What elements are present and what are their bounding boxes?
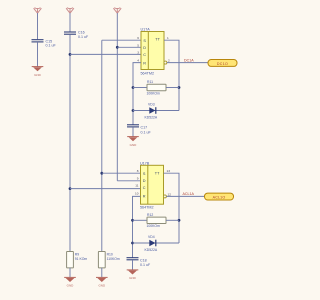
wire (132, 260, 134, 270)
wire (70, 53, 141, 55)
svg-text:0.1 uF: 0.1 uF (46, 43, 57, 47)
resistor R11 (147, 80, 167, 95)
svg-text:R11: R11 (147, 80, 153, 84)
resistor R10 (98, 252, 120, 268)
power port P2 (66, 8, 74, 14)
wire (133, 242, 180, 244)
svg-text:C: C (143, 53, 146, 57)
svg-text:564TM2: 564TM2 (140, 205, 154, 209)
svg-text:0.1 uF: 0.1 uF (140, 263, 151, 267)
svg-text:KD522A: KD522A (145, 116, 158, 120)
svg-text:3: 3 (137, 50, 139, 54)
port ACL1O (205, 193, 234, 200)
resistor R9 (67, 252, 88, 268)
svg-text:5: 5 (137, 43, 139, 47)
svg-text:13: 13 (167, 169, 171, 173)
junction (69, 187, 72, 190)
svg-text:R: R (143, 194, 146, 198)
wire (102, 39, 141, 41)
wire (101, 40, 103, 251)
svg-text:GND: GND (98, 284, 106, 288)
svg-text:C16: C16 (78, 31, 85, 35)
svg-text:U17A: U17A (141, 27, 151, 31)
wire (164, 40, 179, 110)
ground (64, 277, 76, 287)
junction (132, 109, 135, 112)
wire (70, 188, 141, 190)
svg-text:GND: GND (130, 143, 138, 147)
junction (178, 219, 181, 222)
diode VD4 (145, 235, 158, 252)
svg-text:GND: GND (67, 284, 75, 288)
svg-text:C: C (143, 186, 146, 190)
capacitor C18 (127, 258, 151, 267)
svg-text:GND: GND (129, 276, 137, 280)
svg-text:8: 8 (137, 169, 139, 173)
ground (127, 137, 139, 147)
svg-text:VD4: VD4 (148, 235, 155, 239)
capacitor C17 (127, 125, 151, 135)
svg-text:0.1 uF: 0.1 uF (78, 35, 89, 39)
power port P3 (113, 8, 121, 14)
wire (133, 110, 179, 112)
wire (37, 43, 39, 67)
svg-text:100KOm: 100KOm (147, 91, 161, 95)
svg-text:10: 10 (135, 192, 139, 196)
svg-text:KD522A: KD522A (145, 248, 158, 252)
svg-text:C18: C18 (140, 258, 147, 262)
svg-text:1: 1 (167, 36, 169, 40)
svg-text:R9: R9 (75, 253, 79, 257)
svg-text:12: 12 (168, 192, 172, 196)
flip-flop U17A (141, 27, 167, 75)
svg-text:11: 11 (135, 183, 138, 187)
svg-text:0.1 uF: 0.1 uF (141, 130, 152, 134)
svg-text:TT: TT (155, 38, 160, 42)
wire (133, 196, 141, 257)
wire (37, 13, 39, 39)
capacitor C16 (64, 31, 89, 39)
svg-text:DC1O: DC1O (217, 62, 228, 66)
port DC1O (208, 60, 237, 67)
junction (131, 219, 134, 222)
wire (166, 195, 204, 197)
svg-text:U17B: U17B (140, 161, 150, 165)
wire (117, 180, 140, 182)
capacitor C15 (32, 39, 57, 47)
svg-text:2: 2 (168, 59, 170, 63)
svg-text:C17: C17 (141, 126, 148, 130)
wire (132, 127, 134, 136)
svg-text:R10: R10 (107, 253, 113, 257)
svg-text:D: D (143, 179, 146, 183)
wire (133, 63, 141, 125)
ground (96, 277, 108, 287)
ground (127, 270, 139, 280)
power port P1 (34, 8, 42, 14)
junction (132, 86, 135, 89)
wire (117, 46, 141, 48)
wire (69, 268, 71, 277)
svg-text:R: R (143, 61, 146, 65)
svg-text:ACL1A: ACL1A (183, 192, 195, 196)
svg-text:D: D (143, 46, 146, 50)
wire (166, 87, 179, 89)
wire (116, 13, 118, 181)
svg-text:VD3: VD3 (148, 103, 155, 107)
svg-text:100KOm: 100KOm (147, 224, 161, 228)
flip-flop U17B (140, 161, 166, 209)
svg-text:110KOm: 110KOm (107, 257, 120, 261)
wire (133, 219, 148, 221)
wire (133, 87, 147, 89)
wire (102, 172, 141, 174)
resistor R12 (147, 213, 167, 228)
junction (116, 46, 119, 49)
svg-text:9: 9 (137, 176, 139, 180)
svg-text:R12: R12 (147, 213, 153, 217)
diode VD3 (145, 103, 158, 120)
junction (178, 86, 181, 89)
svg-text:564TM2: 564TM2 (141, 71, 155, 75)
wire (167, 62, 208, 64)
svg-text:ACL1O: ACL1O (213, 196, 226, 200)
svg-text:6: 6 (137, 36, 139, 40)
svg-text:GND: GND (34, 73, 42, 77)
svg-text:DC1A: DC1A (184, 58, 194, 62)
wire (69, 13, 71, 32)
svg-text:91 KOm: 91 KOm (75, 257, 88, 261)
junction (131, 242, 134, 245)
wire (166, 219, 179, 221)
wire (69, 35, 71, 252)
svg-text:TT: TT (155, 171, 160, 175)
junction (69, 53, 72, 56)
svg-text:4: 4 (137, 59, 139, 63)
ground (32, 67, 44, 77)
wire (101, 268, 103, 277)
junction (100, 172, 103, 175)
wire (164, 173, 180, 243)
